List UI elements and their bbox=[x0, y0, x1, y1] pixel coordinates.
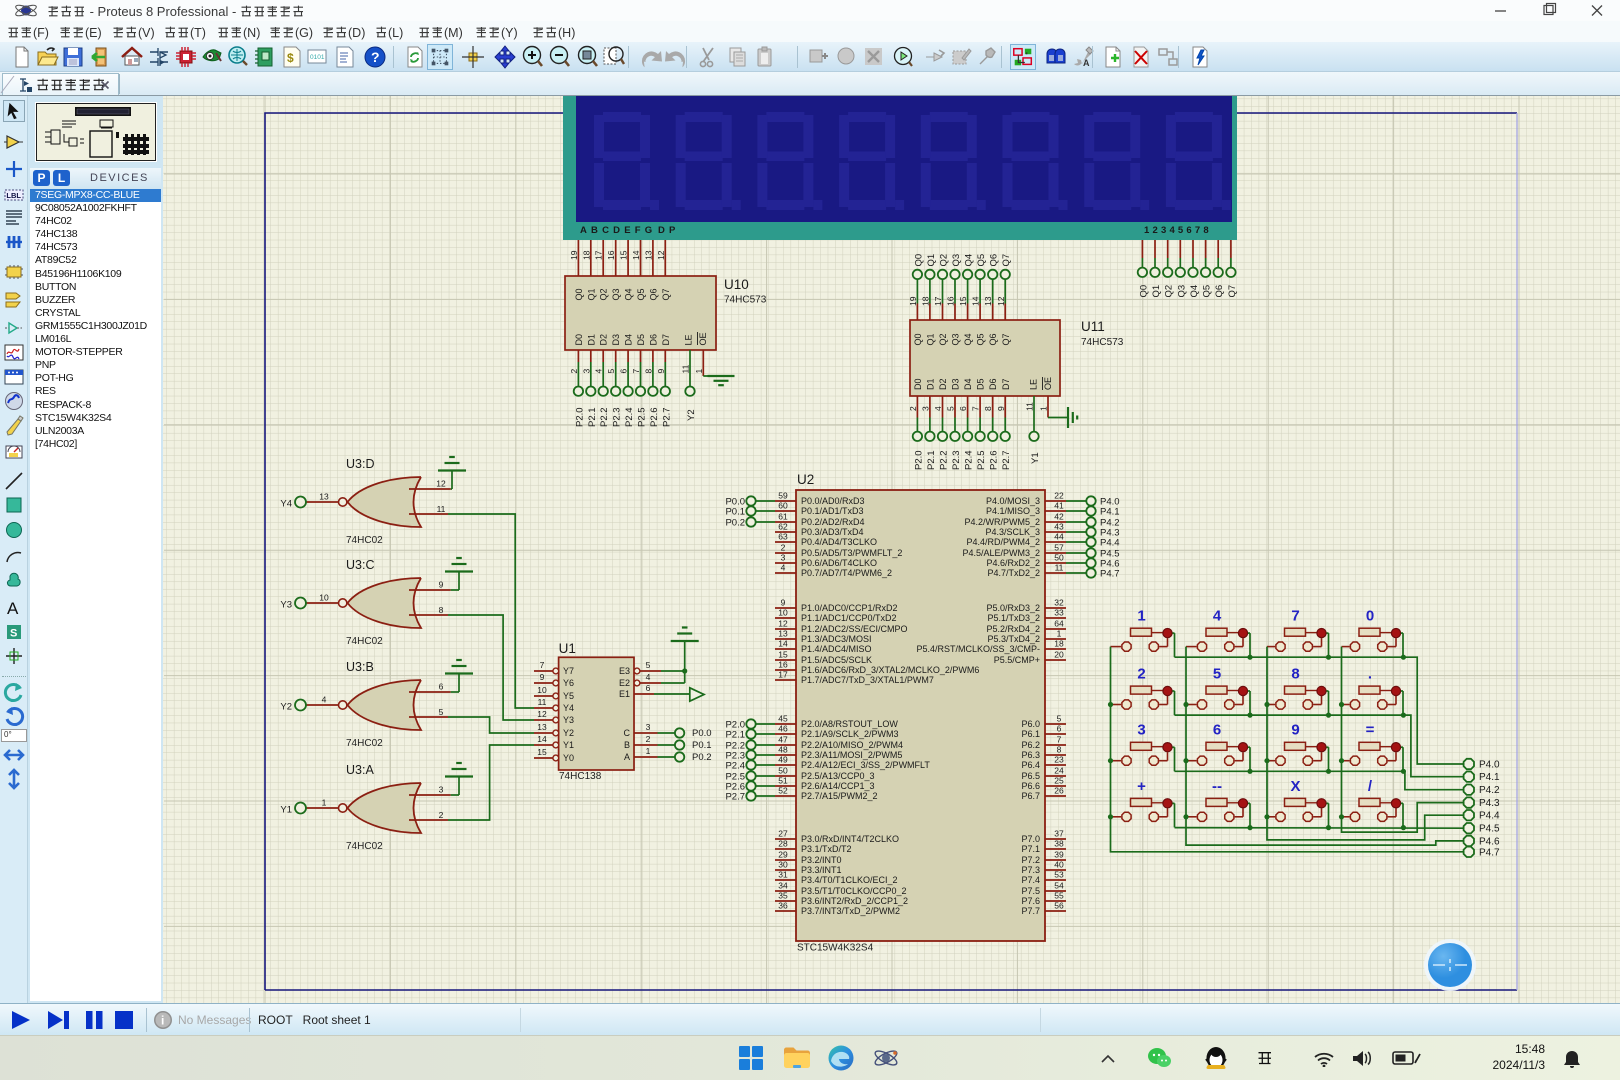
svg-text:9: 9 bbox=[540, 672, 545, 682]
svg-text:P2.6: P2.6 bbox=[649, 407, 660, 427]
svg-text:Y6: Y6 bbox=[563, 678, 574, 688]
svg-text:56: 56 bbox=[1054, 901, 1064, 911]
svg-text:P4.1/MISO_3: P4.1/MISO_3 bbox=[986, 506, 1040, 516]
svg-text:1: 1 bbox=[1137, 608, 1145, 625]
svg-text:P2.3: P2.3 bbox=[612, 407, 623, 427]
svg-text:P1.2/ADC2/SS/ECI/CMPO: P1.2/ADC2/SS/ECI/CMPO bbox=[801, 624, 908, 634]
svg-text:P4.5: P4.5 bbox=[1479, 824, 1500, 835]
svg-text:0: 0 bbox=[1366, 608, 1374, 625]
svg-text:Q4: Q4 bbox=[624, 288, 634, 300]
svg-text:5: 5 bbox=[606, 369, 616, 374]
svg-text:63: 63 bbox=[778, 532, 788, 542]
svg-text:D1: D1 bbox=[586, 334, 596, 346]
svg-text:13: 13 bbox=[537, 722, 547, 732]
svg-text:74HC138: 74HC138 bbox=[559, 771, 602, 782]
svg-text:P0.3/AD3/TxD4: P0.3/AD3/TxD4 bbox=[801, 527, 864, 537]
svg-text:Q2: Q2 bbox=[938, 333, 948, 345]
svg-text:P3.4/T0/T1CLKO/ECI_2: P3.4/T0/T1CLKO/ECI_2 bbox=[801, 875, 898, 885]
svg-text:Q7: Q7 bbox=[1227, 285, 1238, 298]
svg-text:P5.0/RxD3_2: P5.0/RxD3_2 bbox=[986, 603, 1040, 613]
svg-text:5: 5 bbox=[1057, 714, 1062, 724]
svg-text:P0.0: P0.0 bbox=[692, 728, 712, 739]
svg-text:P7.5: P7.5 bbox=[1021, 886, 1040, 896]
svg-text:P7.3: P7.3 bbox=[1021, 865, 1040, 875]
svg-text:P2.7: P2.7 bbox=[1001, 450, 1012, 470]
svg-text:U11: U11 bbox=[1081, 319, 1105, 334]
svg-text:Y2: Y2 bbox=[563, 728, 574, 738]
svg-text:74HC573: 74HC573 bbox=[1081, 337, 1124, 348]
svg-text:50: 50 bbox=[1054, 553, 1064, 563]
svg-text:Q4: Q4 bbox=[963, 333, 973, 345]
svg-text:3: 3 bbox=[1137, 722, 1145, 739]
svg-text:12: 12 bbox=[778, 619, 788, 629]
svg-text:Y7: Y7 bbox=[563, 666, 574, 676]
svg-text:P2.0: P2.0 bbox=[913, 450, 924, 470]
svg-text:12345678: 12345678 bbox=[1144, 225, 1212, 236]
svg-text:Y5: Y5 bbox=[563, 691, 574, 701]
svg-text:D6: D6 bbox=[988, 378, 998, 390]
svg-text:Q4: Q4 bbox=[964, 254, 975, 267]
svg-text:18: 18 bbox=[581, 250, 591, 260]
svg-text:19: 19 bbox=[908, 296, 918, 306]
svg-text:32: 32 bbox=[1054, 598, 1064, 608]
svg-text:2: 2 bbox=[1137, 666, 1145, 683]
svg-text:Q6: Q6 bbox=[988, 333, 998, 345]
svg-text:25: 25 bbox=[1054, 776, 1064, 786]
svg-text:D2: D2 bbox=[938, 378, 948, 390]
svg-text:P4.1: P4.1 bbox=[1479, 772, 1500, 783]
svg-text:12: 12 bbox=[537, 709, 547, 719]
svg-text:18: 18 bbox=[1054, 639, 1064, 649]
svg-text:P2.2/A10/MISO_2/PWM4: P2.2/A10/MISO_2/PWM4 bbox=[801, 740, 903, 750]
svg-text:16: 16 bbox=[778, 660, 788, 670]
svg-text:P1.3/ADC3/MOSI: P1.3/ADC3/MOSI bbox=[801, 634, 872, 644]
svg-text:10: 10 bbox=[319, 593, 329, 603]
svg-text:Q6: Q6 bbox=[648, 288, 658, 300]
svg-text:P2.6/A14/CCP1_3: P2.6/A14/CCP1_3 bbox=[801, 781, 875, 791]
svg-text:Y2: Y2 bbox=[686, 409, 697, 421]
svg-text:1: 1 bbox=[1039, 406, 1049, 411]
svg-text:P2.0: P2.0 bbox=[574, 407, 585, 427]
svg-text:P0.0/AD0/RxD3: P0.0/AD0/RxD3 bbox=[801, 496, 865, 506]
svg-text:45: 45 bbox=[778, 714, 788, 724]
svg-text:4: 4 bbox=[933, 406, 943, 411]
svg-text:D5: D5 bbox=[976, 378, 986, 390]
svg-text:P2.1/A9/SCLK_2/PWM3: P2.1/A9/SCLK_2/PWM3 bbox=[801, 729, 899, 739]
svg-text:D3: D3 bbox=[611, 334, 621, 346]
svg-text:7: 7 bbox=[540, 660, 545, 670]
svg-text:Y3: Y3 bbox=[280, 600, 292, 611]
svg-text:14: 14 bbox=[537, 734, 547, 744]
svg-text:Y0: Y0 bbox=[563, 753, 574, 763]
svg-text:4: 4 bbox=[1213, 608, 1222, 625]
svg-text:Q0: Q0 bbox=[1138, 285, 1149, 298]
svg-text:3: 3 bbox=[781, 553, 786, 563]
svg-text:7: 7 bbox=[1057, 735, 1062, 745]
svg-text:52: 52 bbox=[778, 786, 788, 796]
svg-text:P0.2: P0.2 bbox=[692, 752, 712, 763]
svg-text:3: 3 bbox=[646, 722, 651, 732]
svg-text:59: 59 bbox=[778, 491, 788, 501]
svg-text:0101: 0101 bbox=[310, 54, 325, 61]
svg-text:51: 51 bbox=[778, 776, 788, 786]
svg-text:Q3: Q3 bbox=[951, 333, 961, 345]
svg-text:P2.7: P2.7 bbox=[661, 407, 672, 427]
svg-text:P3.3/INT1: P3.3/INT1 bbox=[801, 865, 842, 875]
svg-text:53: 53 bbox=[1054, 870, 1064, 880]
svg-text:9: 9 bbox=[439, 580, 444, 590]
svg-text:P4.2: P4.2 bbox=[1479, 785, 1500, 796]
svg-text:B: B bbox=[624, 740, 630, 750]
svg-text:Q5: Q5 bbox=[976, 333, 986, 345]
svg-text:P4.6: P4.6 bbox=[1479, 836, 1500, 847]
svg-text:64: 64 bbox=[1054, 619, 1064, 629]
svg-text:6: 6 bbox=[1213, 722, 1221, 739]
svg-text:10: 10 bbox=[537, 685, 547, 695]
svg-text:15: 15 bbox=[778, 650, 788, 660]
svg-text:40: 40 bbox=[1054, 860, 1064, 870]
svg-text:+: + bbox=[1137, 778, 1146, 795]
svg-text:P6.4: P6.4 bbox=[1021, 760, 1040, 770]
svg-text:2: 2 bbox=[646, 734, 651, 744]
svg-text:STC15W4K32S4: STC15W4K32S4 bbox=[797, 943, 874, 954]
svg-text:Q0: Q0 bbox=[913, 333, 923, 345]
svg-text:2: 2 bbox=[908, 406, 918, 411]
svg-text:74HC02: 74HC02 bbox=[346, 535, 383, 546]
svg-text:D5: D5 bbox=[636, 334, 646, 346]
svg-text:37: 37 bbox=[1054, 829, 1064, 839]
svg-text:P4.0: P4.0 bbox=[1479, 760, 1500, 771]
svg-text:18: 18 bbox=[920, 296, 930, 306]
svg-text:15: 15 bbox=[958, 296, 968, 306]
svg-text:.: . bbox=[1368, 666, 1372, 683]
svg-text:1: 1 bbox=[1057, 629, 1062, 639]
svg-text:Q7: Q7 bbox=[1001, 333, 1011, 345]
svg-text:Q4: Q4 bbox=[1189, 285, 1200, 298]
svg-text:48: 48 bbox=[778, 745, 788, 755]
svg-text:10: 10 bbox=[778, 608, 788, 618]
svg-text:P2.6: P2.6 bbox=[989, 450, 1000, 470]
svg-text:17: 17 bbox=[933, 296, 943, 306]
svg-text:D3: D3 bbox=[951, 378, 961, 390]
svg-text:P1.0/ADC0/CCP1/RxD2: P1.0/ADC0/CCP1/RxD2 bbox=[801, 603, 898, 613]
svg-text:8: 8 bbox=[1291, 666, 1299, 683]
svg-text:P3.0/RxD/INT4/T2CLKO: P3.0/RxD/INT4/T2CLKO bbox=[801, 834, 899, 844]
svg-text:LE: LE bbox=[1029, 379, 1039, 390]
svg-text:5: 5 bbox=[646, 660, 651, 670]
svg-text:E1: E1 bbox=[619, 689, 630, 699]
svg-text:Y2: Y2 bbox=[280, 702, 292, 713]
svg-text:17: 17 bbox=[594, 250, 604, 260]
svg-text:Q7: Q7 bbox=[661, 288, 671, 300]
svg-text:Q0: Q0 bbox=[574, 288, 584, 300]
svg-text:P2.0/A8/RSTOUT_LOW: P2.0/A8/RSTOUT_LOW bbox=[801, 719, 898, 729]
svg-text:8: 8 bbox=[1057, 745, 1062, 755]
svg-text:20: 20 bbox=[1054, 650, 1064, 660]
svg-text:P0.7/AD7/T4/PWM6_2: P0.7/AD7/T4/PWM6_2 bbox=[801, 568, 892, 578]
svg-text:15: 15 bbox=[619, 250, 629, 260]
svg-text:P2.5: P2.5 bbox=[637, 407, 648, 427]
svg-text:Q1: Q1 bbox=[925, 333, 935, 345]
svg-text:P4.0/MOSI_3: P4.0/MOSI_3 bbox=[986, 496, 1040, 506]
svg-text:Q6: Q6 bbox=[1214, 285, 1225, 298]
svg-text:12: 12 bbox=[996, 296, 1006, 306]
svg-text:P0.1: P0.1 bbox=[725, 506, 745, 517]
svg-text:P6.6: P6.6 bbox=[1021, 781, 1040, 791]
svg-text:33: 33 bbox=[1054, 608, 1064, 618]
svg-text:P5.1/TxD3_2: P5.1/TxD3_2 bbox=[987, 613, 1040, 623]
svg-text:U3:A: U3:A bbox=[346, 763, 374, 777]
svg-text:2: 2 bbox=[439, 810, 444, 820]
svg-text:54: 54 bbox=[1054, 881, 1064, 891]
svg-text:D2: D2 bbox=[599, 334, 609, 346]
svg-text:P4.4: P4.4 bbox=[1479, 811, 1500, 822]
svg-text:14: 14 bbox=[631, 250, 641, 260]
svg-text:P3.7/INT3/TxD_2/PWM2: P3.7/INT3/TxD_2/PWM2 bbox=[801, 906, 900, 916]
svg-text:P5.4/RST/MCLKO/SS_3/CMP-: P5.4/RST/MCLKO/SS_3/CMP- bbox=[916, 644, 1040, 654]
svg-text:5: 5 bbox=[1213, 666, 1221, 683]
svg-text:12: 12 bbox=[436, 479, 446, 489]
svg-text:P1.5/ADC5/SCLK: P1.5/ADC5/SCLK bbox=[801, 655, 872, 665]
svg-text:P2.5: P2.5 bbox=[976, 450, 987, 470]
svg-text:42: 42 bbox=[1054, 512, 1064, 522]
svg-text:15: 15 bbox=[537, 747, 547, 757]
svg-text:29: 29 bbox=[778, 850, 788, 860]
svg-text:39: 39 bbox=[1054, 850, 1064, 860]
svg-text:P2.4: P2.4 bbox=[964, 450, 975, 470]
svg-text:50: 50 bbox=[778, 766, 788, 776]
svg-text:Y1: Y1 bbox=[563, 740, 574, 750]
svg-text:1: 1 bbox=[646, 746, 651, 756]
svg-text:OE: OE bbox=[698, 332, 708, 345]
svg-text:9: 9 bbox=[996, 406, 1006, 411]
svg-text:62: 62 bbox=[778, 522, 788, 532]
svg-text:P4.3/SCLK_3: P4.3/SCLK_3 bbox=[985, 527, 1040, 537]
svg-text:27: 27 bbox=[778, 829, 788, 839]
svg-text:A: A bbox=[624, 752, 630, 762]
svg-text:P3.5/T1/T0CLKO/CCP0_2: P3.5/T1/T0CLKO/CCP0_2 bbox=[801, 886, 907, 896]
svg-text:P0.5/AD5/T3/PWMFLT_2: P0.5/AD5/T3/PWMFLT_2 bbox=[801, 548, 902, 558]
svg-text:P7.4: P7.4 bbox=[1021, 875, 1040, 885]
svg-text:47: 47 bbox=[778, 735, 788, 745]
svg-text:Y4: Y4 bbox=[563, 703, 574, 713]
svg-text:6: 6 bbox=[958, 406, 968, 411]
svg-text:49: 49 bbox=[778, 755, 788, 765]
svg-text:U3:D: U3:D bbox=[346, 457, 374, 471]
svg-text:--: -- bbox=[1212, 778, 1222, 795]
svg-text:12: 12 bbox=[656, 250, 666, 260]
svg-text:D7: D7 bbox=[661, 334, 671, 346]
svg-text:OE: OE bbox=[1043, 377, 1053, 390]
svg-text:P5.5/CMP+: P5.5/CMP+ bbox=[994, 655, 1040, 665]
svg-text:LBL: LBL bbox=[6, 191, 21, 200]
svg-text:16: 16 bbox=[606, 250, 616, 260]
svg-text:S: S bbox=[10, 628, 17, 640]
svg-text:U1: U1 bbox=[559, 641, 576, 656]
svg-text:P4.5/ALE/PWM3_2: P4.5/ALE/PWM3_2 bbox=[962, 548, 1040, 558]
svg-text:36: 36 bbox=[778, 901, 788, 911]
svg-text:P4.7/TxD2_2: P4.7/TxD2_2 bbox=[987, 568, 1040, 578]
svg-text:46: 46 bbox=[778, 724, 788, 734]
svg-text:Q5: Q5 bbox=[636, 288, 646, 300]
svg-text:P1.7/ADC7/TxD_3/XTAL1/PWM7: P1.7/ADC7/TxD_3/XTAL1/PWM7 bbox=[801, 675, 934, 685]
svg-text:P3.6/INT2/RxD_2/CCP1_2: P3.6/INT2/RxD_2/CCP1_2 bbox=[801, 896, 908, 906]
svg-text:74HC02: 74HC02 bbox=[346, 738, 383, 749]
svg-text:P2.1: P2.1 bbox=[587, 407, 598, 427]
svg-text:26: 26 bbox=[1054, 786, 1064, 796]
svg-text:P2.5/A13/CCP0_3: P2.5/A13/CCP0_3 bbox=[801, 771, 875, 781]
svg-text:P7.0: P7.0 bbox=[1021, 834, 1040, 844]
svg-text:U3:B: U3:B bbox=[346, 660, 374, 674]
svg-text:i: i bbox=[161, 1014, 164, 1028]
svg-text:P4.7: P4.7 bbox=[1479, 847, 1500, 858]
svg-text:D0: D0 bbox=[574, 334, 584, 346]
svg-text:C: C bbox=[624, 728, 631, 738]
svg-text:2: 2 bbox=[569, 369, 579, 374]
svg-text:E3: E3 bbox=[619, 666, 630, 676]
svg-text:17: 17 bbox=[778, 670, 788, 680]
svg-text:P2.4: P2.4 bbox=[624, 407, 635, 427]
svg-text:7: 7 bbox=[971, 406, 981, 411]
svg-text:13: 13 bbox=[643, 250, 653, 260]
svg-text:11: 11 bbox=[1025, 402, 1035, 411]
svg-text:5: 5 bbox=[439, 707, 444, 717]
svg-text:30: 30 bbox=[778, 860, 788, 870]
svg-text:D7: D7 bbox=[1001, 378, 1011, 390]
svg-text:P4.4: P4.4 bbox=[1100, 537, 1120, 548]
svg-text:3: 3 bbox=[920, 406, 930, 411]
svg-text:DP: DP bbox=[658, 225, 680, 236]
svg-text:13: 13 bbox=[983, 296, 993, 306]
svg-text:P5.3/TxD4_2: P5.3/TxD4_2 bbox=[987, 634, 1040, 644]
svg-text:P1.4/ADC4/MISO: P1.4/ADC4/MISO bbox=[801, 644, 872, 654]
svg-text:3: 3 bbox=[581, 369, 591, 374]
svg-text:P2.2: P2.2 bbox=[939, 450, 950, 470]
svg-text:9: 9 bbox=[656, 369, 666, 374]
svg-text:X: X bbox=[1290, 778, 1300, 795]
svg-text:6: 6 bbox=[619, 369, 629, 374]
svg-text:P2.3: P2.3 bbox=[951, 450, 962, 470]
svg-text:A: A bbox=[1083, 58, 1090, 68]
svg-text:6: 6 bbox=[439, 682, 444, 692]
svg-text:=: = bbox=[1366, 722, 1375, 739]
svg-text:Y4: Y4 bbox=[280, 499, 292, 510]
svg-text:23: 23 bbox=[1054, 755, 1064, 765]
svg-text:34: 34 bbox=[778, 881, 788, 891]
svg-text:Q6: Q6 bbox=[989, 254, 1000, 267]
svg-text:6: 6 bbox=[1057, 724, 1062, 734]
svg-text:P1.1/ADC1/CCP0/TxD2: P1.1/ADC1/CCP0/TxD2 bbox=[801, 613, 897, 623]
svg-text:9: 9 bbox=[781, 598, 786, 608]
svg-text:Q7: Q7 bbox=[1001, 254, 1012, 267]
svg-text:Q3: Q3 bbox=[1176, 285, 1187, 298]
svg-text:9: 9 bbox=[1291, 722, 1299, 739]
svg-text:7: 7 bbox=[631, 369, 641, 374]
svg-text:43: 43 bbox=[1054, 522, 1064, 532]
svg-text:D0: D0 bbox=[913, 378, 923, 390]
svg-text:1: 1 bbox=[694, 369, 704, 374]
svg-text:P2.1: P2.1 bbox=[926, 450, 937, 470]
svg-text:P0.2: P0.2 bbox=[725, 517, 745, 528]
svg-text:13: 13 bbox=[778, 629, 788, 639]
svg-text:P7.1: P7.1 bbox=[1021, 844, 1040, 854]
svg-text:11: 11 bbox=[538, 697, 547, 707]
svg-text:E2: E2 bbox=[619, 678, 630, 688]
svg-text:P0.6/AD6/T4CLKO: P0.6/AD6/T4CLKO bbox=[801, 558, 877, 568]
svg-text:P4.3: P4.3 bbox=[1479, 798, 1500, 809]
svg-text:31: 31 bbox=[778, 870, 788, 880]
svg-text:P2.7/A15/PWM2_2: P2.7/A15/PWM2_2 bbox=[801, 791, 878, 801]
svg-text:P3.1/TxD/T2: P3.1/TxD/T2 bbox=[801, 844, 852, 854]
svg-text:Q5: Q5 bbox=[976, 254, 987, 267]
svg-text:U3:C: U3:C bbox=[346, 558, 374, 572]
svg-text:P0.1: P0.1 bbox=[692, 740, 712, 751]
svg-text:D1: D1 bbox=[925, 378, 935, 390]
svg-text:8: 8 bbox=[983, 406, 993, 411]
svg-text:Q1: Q1 bbox=[1151, 285, 1162, 298]
svg-text:61: 61 bbox=[778, 512, 788, 522]
svg-text:8: 8 bbox=[439, 605, 444, 615]
svg-text:16: 16 bbox=[946, 296, 956, 306]
svg-text:Q0: Q0 bbox=[913, 254, 924, 267]
svg-text:74HC573: 74HC573 bbox=[724, 295, 767, 306]
svg-text:24: 24 bbox=[1054, 766, 1064, 776]
svg-text:P2.2: P2.2 bbox=[599, 407, 610, 427]
svg-text:Q3: Q3 bbox=[611, 288, 621, 300]
svg-text:6: 6 bbox=[646, 683, 651, 693]
svg-text:1: 1 bbox=[322, 798, 327, 808]
svg-text:P4.1: P4.1 bbox=[1100, 506, 1120, 517]
svg-text:Q5: Q5 bbox=[1202, 285, 1213, 298]
svg-text:D6: D6 bbox=[648, 334, 658, 346]
svg-text:P7.6: P7.6 bbox=[1021, 896, 1040, 906]
svg-text:3: 3 bbox=[439, 785, 444, 795]
svg-text:55: 55 bbox=[1054, 891, 1064, 901]
svg-text:P0.2/AD2/RxD4: P0.2/AD2/RxD4 bbox=[801, 517, 865, 527]
svg-text:U10: U10 bbox=[724, 277, 749, 292]
svg-text:Q2: Q2 bbox=[599, 288, 609, 300]
svg-text:4: 4 bbox=[322, 695, 327, 705]
svg-text:Q2: Q2 bbox=[1164, 285, 1175, 298]
svg-text:?: ? bbox=[371, 49, 380, 65]
svg-text:11: 11 bbox=[437, 504, 446, 514]
svg-text:P3.2/INT0: P3.2/INT0 bbox=[801, 855, 842, 865]
svg-text:P0.4/AD4/T3CLKO: P0.4/AD4/T3CLKO bbox=[801, 537, 877, 547]
svg-text:P2.7: P2.7 bbox=[725, 791, 745, 802]
svg-text:P6.3: P6.3 bbox=[1021, 750, 1040, 760]
svg-text:P6.7: P6.7 bbox=[1021, 791, 1040, 801]
svg-text:P2.1: P2.1 bbox=[725, 729, 745, 740]
svg-text:P7.7: P7.7 bbox=[1021, 906, 1040, 916]
svg-text:D4: D4 bbox=[624, 334, 634, 346]
svg-text:11: 11 bbox=[1055, 563, 1064, 573]
svg-text:P6.1: P6.1 bbox=[1021, 729, 1040, 739]
svg-text:P7.2: P7.2 bbox=[1021, 855, 1040, 865]
svg-text:P0.1/AD1/TxD3: P0.1/AD1/TxD3 bbox=[801, 506, 864, 516]
svg-text:Y1: Y1 bbox=[280, 805, 292, 816]
svg-text:U2: U2 bbox=[797, 472, 814, 487]
svg-text:74HC02: 74HC02 bbox=[346, 841, 383, 852]
svg-text:4: 4 bbox=[594, 369, 604, 374]
svg-text:A: A bbox=[7, 599, 19, 618]
svg-text:28: 28 bbox=[778, 839, 788, 849]
svg-text:14: 14 bbox=[971, 296, 981, 306]
svg-text:ABCDEFG: ABCDEFG bbox=[580, 225, 656, 236]
svg-text:11: 11 bbox=[681, 364, 691, 373]
svg-text:LE: LE bbox=[684, 334, 694, 345]
svg-text:4: 4 bbox=[646, 672, 651, 682]
svg-text:74HC02: 74HC02 bbox=[346, 636, 383, 647]
